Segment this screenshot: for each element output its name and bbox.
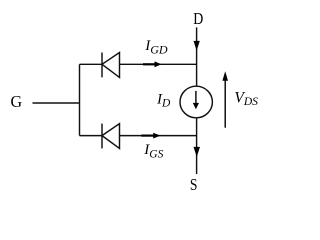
svg-text:G: G — [11, 92, 23, 111]
svg-text:S: S — [190, 175, 198, 194]
svg-text:D: D — [193, 9, 203, 28]
